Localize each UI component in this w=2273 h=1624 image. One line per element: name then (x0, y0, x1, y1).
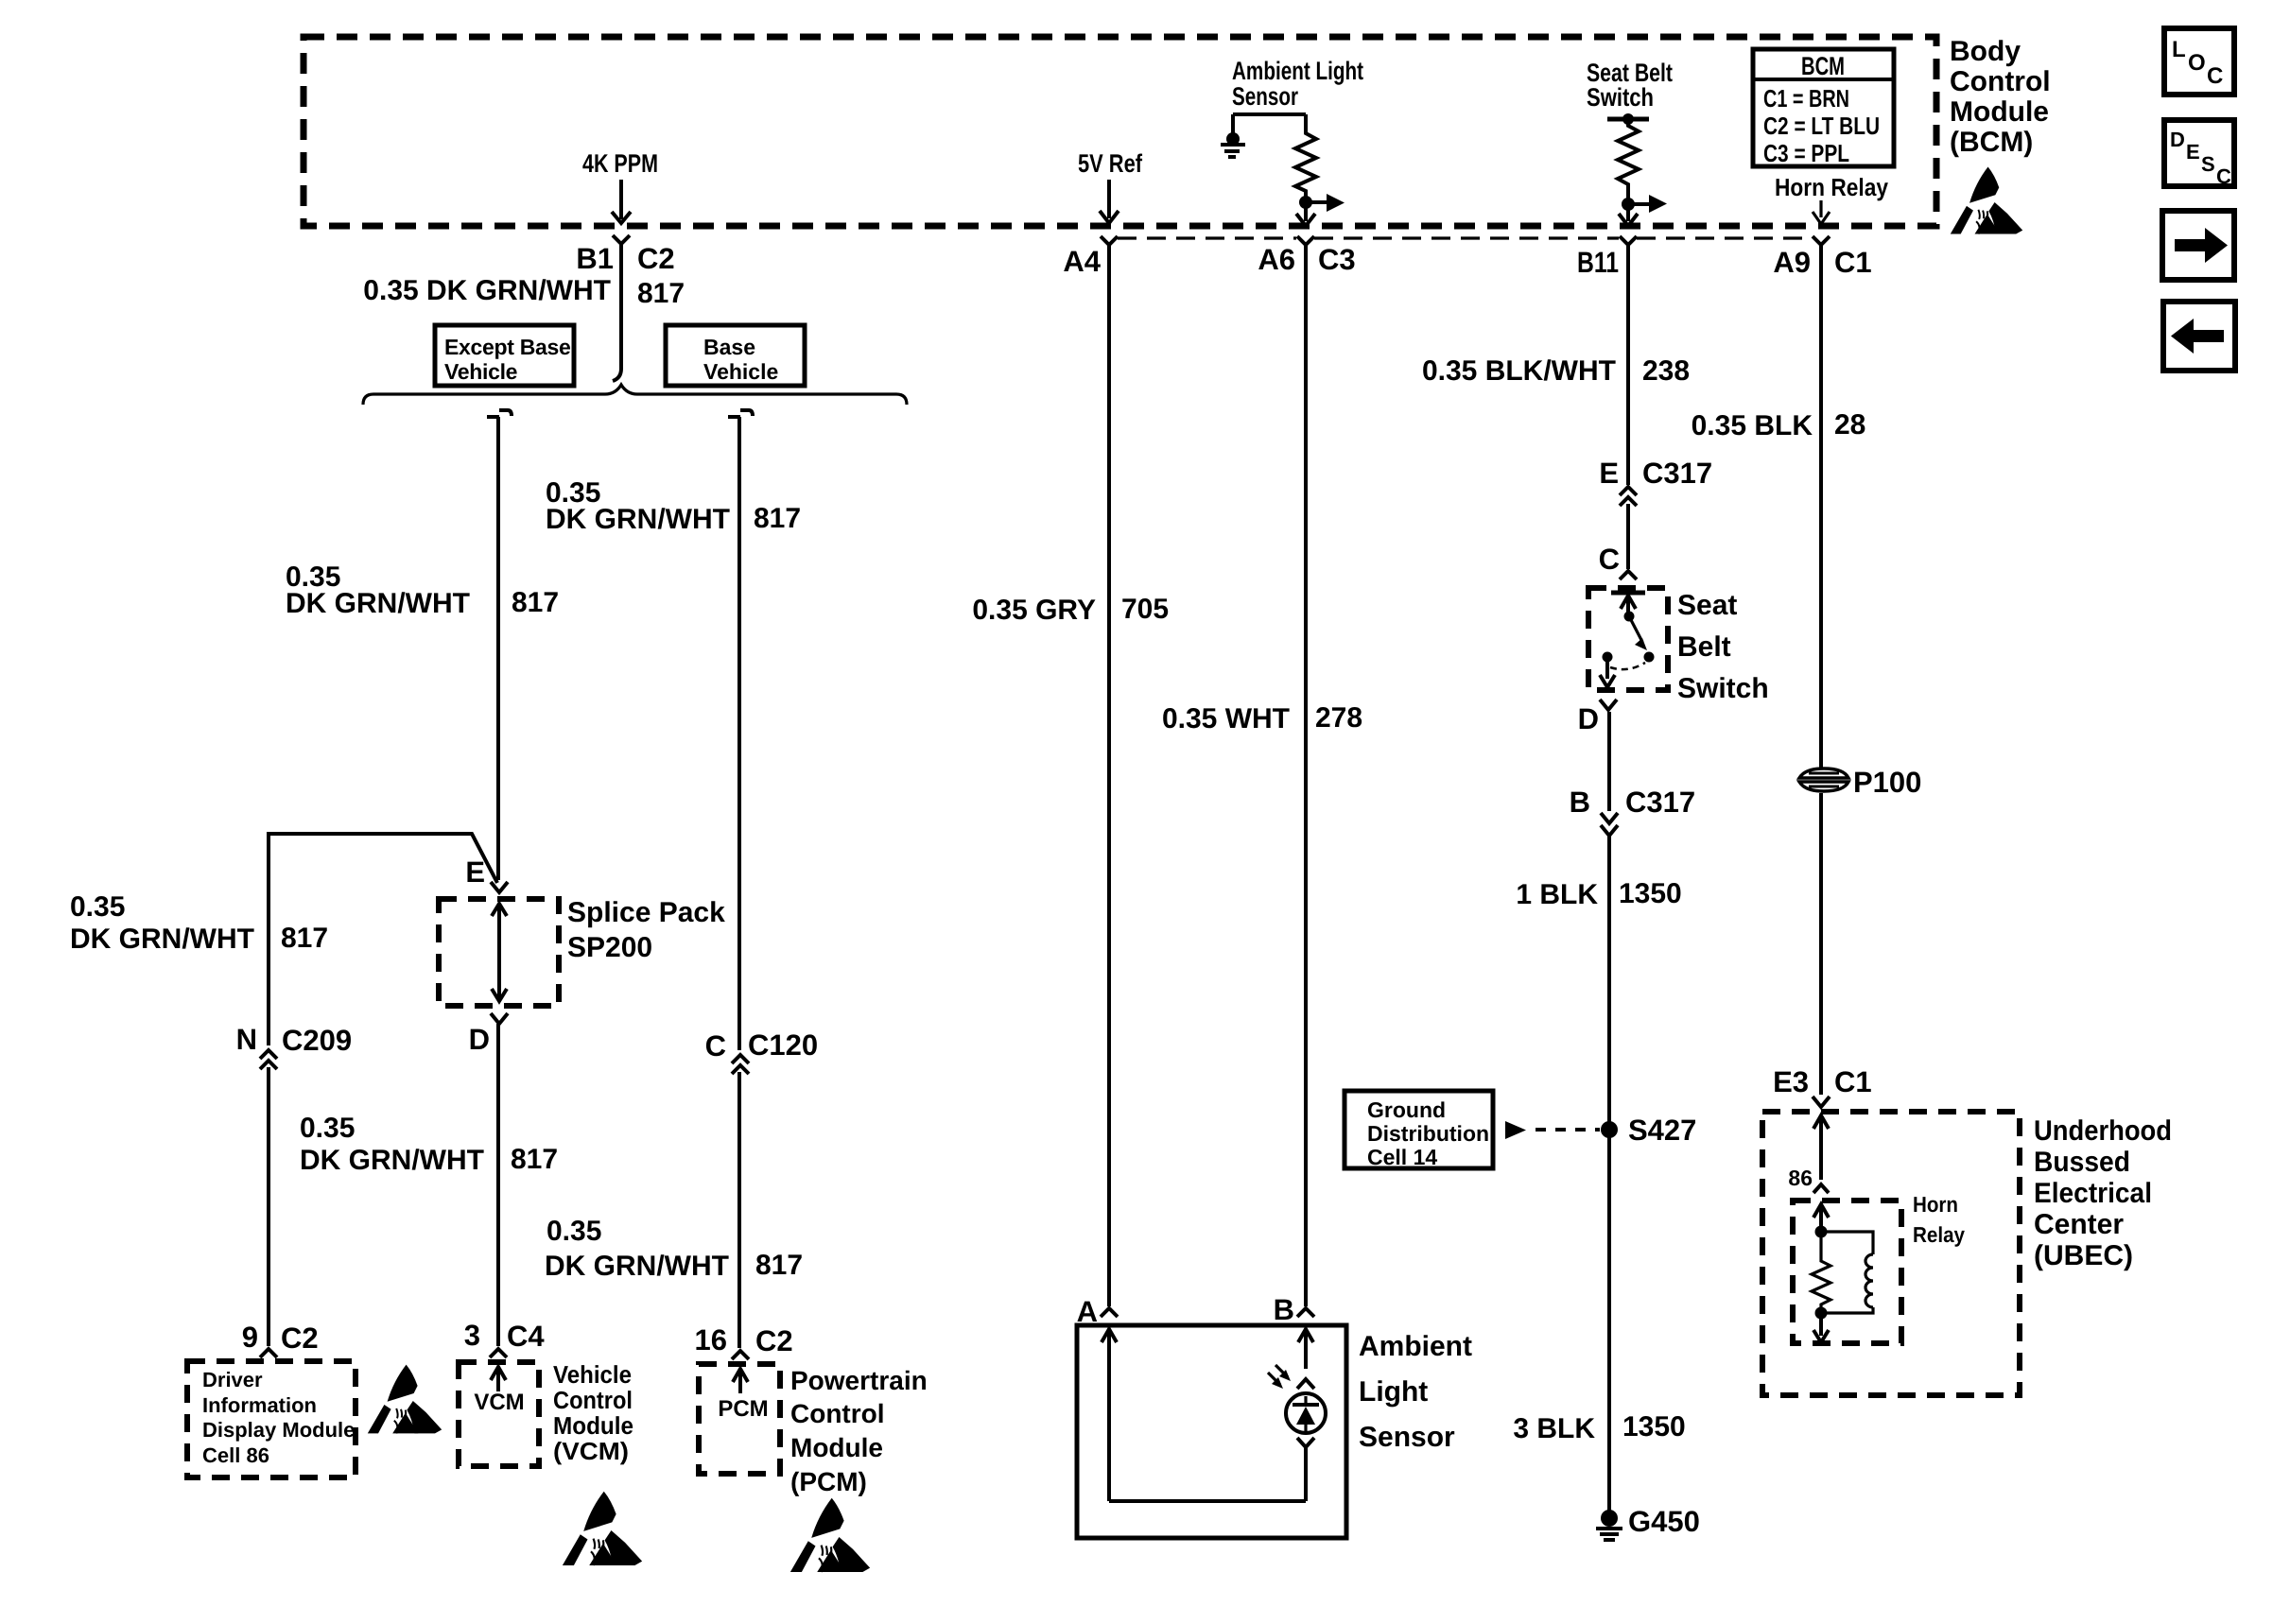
svg-text:(PCM): (PCM) (790, 1467, 867, 1496)
svg-text:E: E (2186, 140, 2200, 164)
svg-text:Cell 14: Cell 14 (1367, 1145, 1437, 1169)
svg-text:B1: B1 (576, 242, 614, 275)
resistor seat belt switch inside BCM (1618, 119, 1639, 204)
wire arrow into horn relay (1813, 1204, 1829, 1229)
svg-text:0.35 WHT: 0.35 WHT (1162, 703, 1290, 734)
svg-text:Control: Control (1950, 66, 2051, 97)
svg-text:Vehicle: Vehicle (703, 359, 778, 384)
svg-text:3: 3 (464, 1319, 480, 1352)
svg-text:Electrical: Electrical (2034, 1178, 2152, 1209)
svg-text:S427: S427 (1628, 1114, 1696, 1147)
svg-text:C3: C3 (1318, 243, 1356, 276)
svg-text:Splice Pack: Splice Pack (567, 897, 725, 928)
svg-text:C317: C317 (1625, 786, 1695, 819)
module Horn Relay dashed box (1793, 1201, 1901, 1343)
svg-text:C: C (705, 1029, 726, 1063)
wire arrow into PCM (733, 1369, 748, 1393)
svg-text:VCM: VCM (474, 1390, 524, 1415)
wire 5V Ref arrow into BCM A4 (1100, 180, 1119, 223)
svg-text:Module: Module (553, 1411, 633, 1440)
svg-text:Sensor: Sensor (1232, 82, 1298, 111)
svg-text:SP200: SP200 (567, 932, 652, 963)
connector C317 pin E in-line chevrons (1620, 487, 1637, 506)
wire VCM column lower (496, 1024, 500, 1346)
resistor horn relay (1812, 1232, 1831, 1313)
svg-text:C4: C4 (507, 1320, 545, 1353)
svg-text:0.35: 0.35 (300, 1113, 355, 1144)
connector D female below splice pack (491, 1013, 508, 1024)
connector face thin dashed line A6-B11 (1314, 236, 1619, 239)
svg-text:Powertrain: Powertrain (790, 1366, 928, 1395)
svg-text:0.35 BLK: 0.35 BLK (1692, 410, 1813, 441)
svg-text:Information: Information (202, 1393, 317, 1417)
svg-text:9: 9 (242, 1321, 258, 1354)
svg-text:Vehicle: Vehicle (553, 1360, 632, 1389)
svg-text:Ambient: Ambient (1359, 1331, 1472, 1362)
svg-text:C120: C120 (748, 1028, 818, 1062)
svg-text:Vehicle: Vehicle (444, 359, 517, 384)
svg-text:Ground: Ground (1367, 1097, 1446, 1122)
svg-text:0.35: 0.35 (70, 891, 125, 923)
ground G450 symbol (1596, 1510, 1622, 1540)
svg-text:C: C (1599, 543, 1620, 576)
wire label 0.35 BLK 28 (1692, 409, 1866, 441)
wire A4 down to ambient sensor (1107, 245, 1111, 1306)
svg-text:C1: C1 (1834, 246, 1872, 279)
connector entry B at sensor (1297, 1308, 1314, 1317)
wire A6 down to ambient sensor (1304, 245, 1308, 1306)
svg-text:DK GRN/WHT: DK GRN/WHT (545, 1251, 729, 1282)
svg-text:C2: C2 (637, 242, 675, 275)
wire 4K PPM arrow into BCM output (612, 180, 631, 223)
wire arrow into VCM (491, 1367, 506, 1391)
svg-text:1350: 1350 (1619, 878, 1682, 909)
svg-text:Cell 86: Cell 86 (202, 1443, 269, 1467)
wire sensor internal bottom (1109, 1499, 1306, 1503)
svg-text:DK GRN/WHT: DK GRN/WHT (300, 1145, 484, 1176)
wire C317 B down to S427 (1607, 834, 1611, 1130)
wire horizontal branch to DIDM column (269, 834, 497, 883)
svg-text:P100: P100 (1853, 766, 1921, 799)
wire arrow out of horn relay (1813, 1313, 1829, 1342)
module VCM dashed box (459, 1362, 539, 1466)
connector chevron below photodiode (1297, 1438, 1314, 1447)
node splice S427 (1601, 1121, 1618, 1138)
wire arrow into switch (1621, 596, 1636, 618)
grommet P100 (1799, 769, 1848, 791)
wire branch arrow right from sensor (1306, 194, 1345, 212)
svg-text:S: S (2201, 152, 2215, 176)
ESD symbol at BCM (1951, 167, 2022, 234)
component label Vehicle Control Module (VCM) (553, 1360, 633, 1465)
wire label 0.35 DK GRN/WHT 817 DIDM upper (70, 891, 328, 955)
svg-text:Seat: Seat (1677, 590, 1737, 621)
wire label 0.35 BLK/WHT 238 (1422, 355, 1690, 387)
wire except-base branch down to E (496, 417, 500, 880)
svg-text:16: 16 (695, 1323, 727, 1356)
switch top contact bar (1611, 591, 1645, 596)
svg-text:C2: C2 (755, 1324, 793, 1357)
svg-text:817: 817 (637, 278, 685, 309)
node Horn Relay inner label (1913, 1192, 1965, 1247)
svg-text:A4: A4 (1063, 245, 1101, 278)
wire DIDM column upper (267, 832, 270, 1045)
module UBEC dashed box (1762, 1112, 2020, 1395)
nav box LOC (2164, 28, 2234, 95)
wire S427 down to G450 (1607, 1130, 1611, 1511)
node junction dot horn relay bottom (1815, 1307, 1828, 1320)
switch pivot and lever (1603, 612, 1655, 670)
svg-text:817: 817 (754, 503, 801, 534)
connector Y at BCM A4 (1101, 236, 1118, 245)
wire arrow into sensor pin B (1298, 1329, 1313, 1369)
svg-text:1 BLK: 1 BLK (1516, 879, 1598, 910)
svg-text:Center: Center (2034, 1209, 2124, 1240)
connector entry C at switch (1620, 571, 1637, 579)
svg-text:Base: Base (703, 335, 755, 359)
svg-text:C317: C317 (1642, 457, 1712, 490)
svg-text:D: D (1578, 702, 1599, 735)
svg-text:5V Ref: 5V Ref (1078, 149, 1143, 178)
splice pack SP200 dashed box (439, 899, 559, 1006)
svg-text:Horn Relay: Horn Relay (1775, 173, 1888, 201)
svg-text:G450: G450 (1628, 1505, 1700, 1538)
svg-text:4K PPM: 4K PPM (582, 149, 658, 178)
svg-text:A6: A6 (1258, 243, 1295, 276)
svg-text:Switch: Switch (1677, 673, 1769, 704)
svg-text:705: 705 (1121, 594, 1169, 625)
connector entry at PCM (732, 1351, 749, 1359)
connector D female below switch (1600, 700, 1617, 710)
wire PCM column lower (737, 1072, 741, 1348)
svg-text:DK GRN/WHT: DK GRN/WHT (546, 504, 730, 535)
wire branch arrow right seat belt (1628, 195, 1667, 213)
svg-text:D: D (469, 1023, 490, 1056)
ESD symbol at DIDM (368, 1365, 442, 1434)
wire horn relay arrow to BCM A9 (1813, 200, 1830, 224)
node junction dot seat belt resistor (1622, 198, 1635, 211)
svg-text:C2 = LT BLU: C2 = LT BLU (1763, 112, 1880, 140)
svg-text:E: E (1599, 457, 1619, 490)
wire arrow down to BCM A6 output (1296, 202, 1315, 226)
svg-text:817: 817 (755, 1250, 803, 1281)
connector Y at BCM B11 (1620, 236, 1637, 245)
svg-text:Control: Control (790, 1399, 885, 1428)
wire ground to sensor resistor (1233, 112, 1306, 116)
wire switch to C317 B (1607, 712, 1611, 811)
svg-text:Underhood: Underhood (2034, 1115, 2172, 1147)
wire arrow into sensor pin A (1102, 1329, 1117, 1501)
svg-text:(BCM): (BCM) (1950, 127, 2033, 158)
connector entry E3 at UBEC (1813, 1097, 1830, 1107)
svg-text:817: 817 (511, 1144, 558, 1175)
wire arrow down to BCM B11 output (1619, 204, 1638, 226)
component Ground Distribution Cell 14 box (1345, 1091, 1493, 1169)
svg-text:N: N (236, 1023, 257, 1056)
svg-text:C1 = BRN: C1 = BRN (1763, 84, 1849, 112)
connector entry at VCM (490, 1349, 507, 1357)
option brace (363, 385, 907, 405)
BCM module dashed box (304, 37, 1936, 226)
svg-text:3 BLK: 3 BLK (1513, 1413, 1595, 1444)
connector entry A at sensor (1101, 1308, 1118, 1317)
connector C120 in-line chevrons (732, 1055, 749, 1074)
wire label 1 BLK 1350 (1516, 878, 1681, 910)
component label Seat Belt Switch right (1677, 590, 1769, 704)
node Seat Belt Switch top label (1587, 59, 1673, 112)
svg-text:C1: C1 (1834, 1065, 1872, 1098)
wire label 0.35 DK GRN/WHT 817 PCM branch (545, 1216, 803, 1282)
svg-text:(VCM): (VCM) (553, 1437, 629, 1465)
wire dashed reference to S427 (1505, 1121, 1600, 1139)
svg-text:238: 238 (1642, 355, 1690, 387)
nav box arrow right (2162, 211, 2234, 280)
ESD symbol at PCM (790, 1498, 870, 1572)
component label Powertrain Control Module (PCM) (790, 1366, 928, 1496)
connector break symbol left branch (487, 410, 512, 417)
component label Ambient Light Sensor right (1359, 1331, 1472, 1453)
svg-text:278: 278 (1315, 702, 1362, 734)
connector entry at DIDM (260, 1349, 277, 1357)
option box Base Vehicle (666, 325, 805, 386)
svg-text:E3: E3 (1773, 1065, 1809, 1098)
svg-text:Body: Body (1950, 36, 2021, 67)
svg-text:817: 817 (281, 923, 328, 954)
svg-text:Sensor: Sensor (1359, 1422, 1455, 1453)
connector Y at BCM A6/C3 (1297, 236, 1314, 245)
svg-text:A9: A9 (1773, 246, 1811, 279)
module Driver Information Display Module dashed box (187, 1361, 356, 1477)
resistor ambient light sensor inside BCM (1295, 114, 1316, 202)
option box Except Base Vehicle (435, 325, 574, 386)
svg-text:Switch: Switch (1587, 83, 1654, 112)
wire B1/C2 down to option brace (613, 244, 621, 381)
svg-text:86: 86 (1788, 1166, 1813, 1190)
svg-text:E: E (465, 855, 485, 889)
svg-text:Horn: Horn (1913, 1192, 1958, 1217)
component BCM connector legend table (1753, 49, 1894, 167)
wire P100 down to UBEC (1819, 793, 1823, 1095)
svg-text:DK GRN/WHT: DK GRN/WHT (70, 924, 254, 955)
svg-text:0.35 DK GRN/WHT: 0.35 DK GRN/WHT (363, 275, 611, 306)
svg-text:28: 28 (1834, 409, 1865, 441)
svg-text:Ambient Light: Ambient Light (1232, 57, 1363, 85)
seat belt switch feed bar inside BCM (1607, 113, 1649, 125)
connector Y at BCM A9/C1 (1813, 236, 1830, 245)
wire label 0.35 DK GRN/WHT 817 except branch (286, 561, 559, 619)
wire DIDM column lower (267, 1067, 270, 1346)
component label Body Control Module (BCM) (1950, 36, 2051, 158)
light arrows into photodiode (1268, 1365, 1291, 1389)
svg-text:Module: Module (790, 1433, 883, 1462)
photodiode symbol (1286, 1393, 1326, 1433)
svg-text:PCM: PCM (718, 1396, 768, 1422)
connector chevron above photodiode (1297, 1379, 1314, 1389)
component label Underhood Bussed Electrical Center (UBEC) (2034, 1115, 2172, 1271)
svg-text:Distribution: Distribution (1367, 1121, 1489, 1146)
connector C209 in-line chevrons (260, 1050, 277, 1069)
svg-text:C2: C2 (281, 1322, 319, 1355)
svg-text:0.35: 0.35 (547, 1216, 601, 1247)
svg-text:C: C (2216, 164, 2231, 188)
svg-text:0.35 BLK/WHT: 0.35 BLK/WHT (1422, 355, 1616, 387)
component Ambient Light Sensor box (1077, 1325, 1346, 1538)
ambient light sensor internal ground symbol (1221, 114, 1245, 157)
svg-text:C: C (2207, 63, 2223, 89)
svg-text:O: O (2188, 50, 2206, 76)
connector face thin dashed line A4-A6 (1118, 236, 1296, 239)
connector break symbol right branch (728, 410, 753, 417)
connector Y at BCM B1/C2 (613, 235, 630, 244)
wire label 3 BLK 1350 (1513, 1411, 1685, 1444)
svg-text:Control: Control (553, 1386, 633, 1414)
connector C317 pin B arrow and chevron (1601, 813, 1618, 836)
svg-text:Driver: Driver (202, 1368, 263, 1391)
relay coil horn relay (1821, 1232, 1873, 1313)
wire arrow out of switch (1600, 662, 1615, 687)
component Seat Belt Switch dashed box (1588, 588, 1668, 690)
svg-text:Belt: Belt (1677, 631, 1731, 663)
svg-text:DK GRN/WHT: DK GRN/WHT (286, 588, 470, 619)
wire photodiode to sensor bottom (1304, 1447, 1308, 1501)
node junction dot horn relay top (1815, 1226, 1828, 1238)
svg-text:B11: B11 (1577, 246, 1619, 279)
svg-text:Bussed: Bussed (2034, 1147, 2130, 1178)
node junction dot at sensor output (1299, 196, 1312, 209)
component label Splice Pack SP200 (567, 897, 725, 963)
ESD symbol at VCM (563, 1492, 642, 1565)
connector 86 chevron (1813, 1184, 1829, 1193)
nav box DESC (2164, 120, 2234, 188)
wire arrow into UBEC (1813, 1115, 1829, 1180)
svg-text:Display Module: Display Module (202, 1418, 355, 1442)
svg-text:1350: 1350 (1622, 1411, 1686, 1443)
svg-text:817: 817 (512, 587, 559, 618)
svg-text:D: D (2170, 128, 2185, 151)
module PCM dashed box (699, 1364, 780, 1474)
svg-text:Except Base: Except Base (444, 335, 571, 359)
svg-text:Light: Light (1359, 1376, 1428, 1408)
wire label 0.35 WHT 278 (1162, 702, 1362, 734)
wire through splice pack with arrowheads (492, 904, 507, 1001)
connector E female at splice pack (491, 882, 508, 892)
wire label 0.35 DK GRN/WHT 817 DIDM lower (300, 1113, 558, 1176)
node Ambient Light Sensor top label (1232, 57, 1363, 111)
svg-text:B: B (1570, 786, 1590, 819)
connector face thin dashed line B11-A9 (1637, 236, 1813, 239)
svg-text:L: L (2172, 37, 2186, 62)
wire C317 to switch (1626, 504, 1630, 569)
svg-text:(UBEC): (UBEC) (2034, 1240, 2133, 1271)
svg-text:0.35 GRY: 0.35 GRY (972, 595, 1096, 626)
wire label 0.35 GRY 705 (972, 594, 1169, 626)
svg-text:C3 = PPL: C3 = PPL (1763, 139, 1849, 167)
wire base-vehicle branch down to C C120 (737, 417, 741, 1050)
svg-text:Relay: Relay (1913, 1222, 1965, 1247)
svg-text:BCM: BCM (1801, 52, 1845, 80)
svg-text:C209: C209 (282, 1024, 352, 1057)
nav box arrow left (2163, 302, 2235, 371)
wire B11 down to C317 E (1626, 245, 1630, 485)
svg-text:B: B (1274, 1293, 1294, 1326)
wire A9 down to P100 (1819, 245, 1823, 769)
svg-text:Module: Module (1950, 96, 2049, 128)
wire label 0.35 DK GRN/WHT 817 base branch (546, 477, 801, 535)
